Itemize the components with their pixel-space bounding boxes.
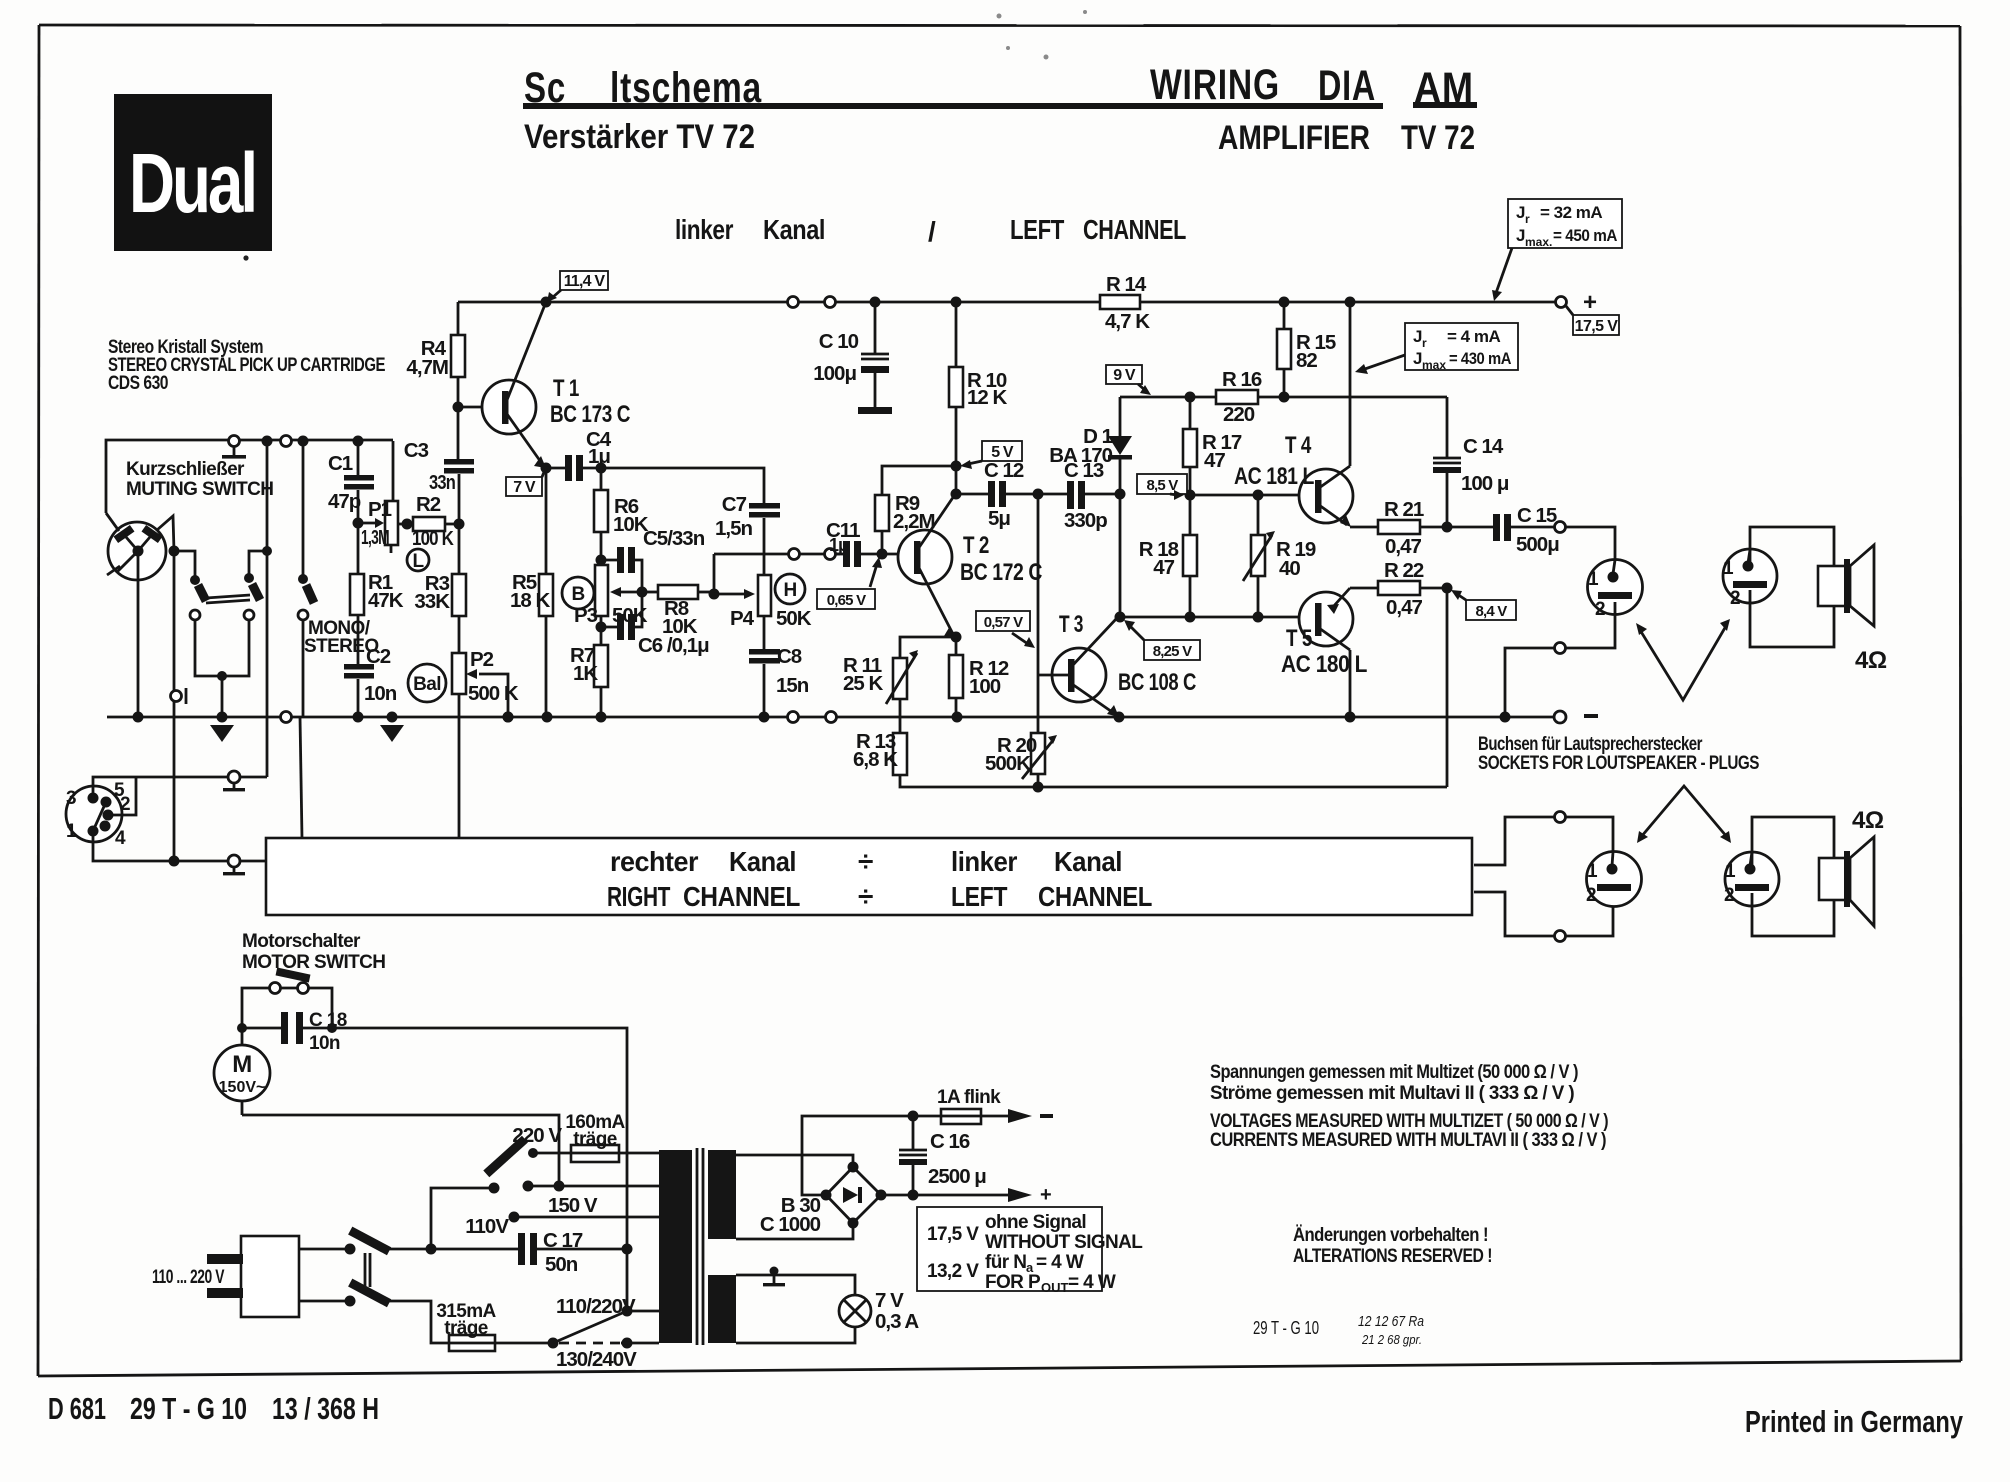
title Schaltschema (partly blotted) — [523, 64, 1477, 112]
contact return wires to ground — [195, 620, 249, 676]
plus terminal — [1556, 289, 1598, 316]
svg-text:330p: 330p — [1064, 509, 1107, 532]
plus rail from bridge — [881, 1194, 1008, 1197]
speaker loop lower — [1752, 817, 1834, 866]
bridge rectifier B30 C1000 — [760, 1162, 887, 1237]
svg-text:träge: träge — [573, 1129, 616, 1150]
svg-text:10K: 10K — [662, 615, 698, 638]
voltage label 17,5V — [1566, 306, 1619, 335]
svg-text:= 32 mA: = 32 mA — [1540, 203, 1602, 222]
node L circle — [407, 549, 429, 572]
svg-text:25 K: 25 K — [843, 672, 883, 695]
transformer — [659, 1148, 736, 1345]
DIN pin3 wire — [93, 777, 228, 798]
svg-text:C2: C2 — [366, 645, 391, 668]
svg-text:8,5 V: 8,5 V — [1146, 477, 1178, 494]
svg-text:rechter: rechter — [610, 846, 699, 877]
svg-text:47K: 47K — [368, 589, 404, 612]
node C6 tap — [596, 622, 607, 633]
notes: alterations — [1293, 1225, 1492, 1267]
svg-text:Ströme gemessen mit Multavi: Ströme gemessen mit Multavi II ( 333 Ω /… — [1210, 1083, 1574, 1104]
svg-text:Kanal: Kanal — [729, 846, 796, 877]
svg-text:P2: P2 — [470, 648, 494, 671]
voltage label 8,4V — [1451, 590, 1516, 620]
svg-text:11,4 V: 11,4 V — [564, 273, 606, 290]
title AMPLIFIER TV 72 — [1218, 119, 1475, 157]
voltage label 9V — [1106, 365, 1151, 395]
svg-text:÷: ÷ — [858, 846, 873, 877]
node D1 junction — [1115, 489, 1126, 500]
chassis on lamp winding — [763, 1267, 785, 1287]
svg-text:J: J — [1413, 349, 1422, 368]
svg-text:ALTERATIONS RESERVED !: ALTERATIONS RESERVED ! — [1293, 1246, 1492, 1267]
voltage label 7V — [506, 472, 544, 496]
svg-text:P3: P3 — [574, 604, 598, 627]
socket L1 — [1588, 560, 1643, 621]
svg-text:ohne Signal: ohne Signal — [985, 1212, 1086, 1233]
svg-text:MUTING SWITCH: MUTING SWITCH — [126, 479, 273, 500]
svg-text:8,25 V: 8,25 V — [1153, 643, 1192, 660]
svg-text:1: 1 — [66, 821, 77, 842]
svg-text:für N: für N — [985, 1252, 1026, 1273]
svg-text:max.: max. — [1525, 235, 1552, 249]
capacitor C6 — [601, 592, 709, 657]
svg-text:110 ... 220 V: 110 ... 220 V — [152, 1267, 225, 1288]
motor feed wires — [242, 1115, 559, 1186]
svg-text:82: 82 — [1296, 349, 1317, 372]
svg-text:5μ: 5μ — [988, 507, 1010, 530]
voltage label 8,25V — [1124, 620, 1200, 660]
svg-text:2: 2 — [120, 794, 130, 815]
svg-text:33n: 33n — [429, 471, 455, 494]
svg-text:29 T - G 10: 29 T - G 10 — [1253, 1318, 1319, 1338]
svg-text:12 K: 12 K — [967, 386, 1007, 409]
potentiometer P4 — [730, 554, 812, 630]
nodes C18 line junctions — [237, 1023, 247, 1033]
wire D1 node down to T3 collector line — [1119, 494, 1122, 617]
svg-text:P4: P4 — [730, 607, 755, 630]
capacitor C15 — [1447, 504, 1559, 556]
switch link dashes — [365, 1253, 370, 1287]
socket R1 — [1586, 852, 1641, 907]
svg-text:= 4 W: = 4 W — [1068, 1272, 1116, 1293]
svg-text:Kanal: Kanal — [763, 214, 825, 245]
heading linker Kanal / LEFT CHANNEL — [675, 214, 1186, 247]
voltage label 11,4V — [547, 271, 608, 302]
svg-text:linker: linker — [675, 214, 733, 245]
svg-text:50K: 50K — [776, 607, 812, 630]
loudspeaker lower — [1819, 807, 1884, 926]
svg-text:Änderungen vorbehalten !: Änderungen vorbehalten ! — [1293, 1225, 1488, 1246]
svg-text:40: 40 — [1279, 557, 1300, 580]
svg-text:träge: träge — [444, 1318, 487, 1339]
svg-text:FOR P: FOR P — [985, 1272, 1041, 1293]
110V tap — [465, 1212, 659, 1239]
svg-text:7 V: 7 V — [875, 1289, 904, 1312]
svg-text:4: 4 — [115, 828, 126, 849]
resistor R4 — [406, 302, 465, 407]
svg-text:C7: C7 — [722, 493, 747, 516]
wire output node down to feedback — [1446, 588, 1449, 787]
svg-text:M: M — [232, 1051, 252, 1078]
node Bal circle — [408, 664, 446, 702]
svg-text:1: 1 — [1723, 558, 1734, 579]
svg-text:T 4: T 4 — [1285, 432, 1312, 459]
wire x268 feed — [266, 441, 269, 551]
svg-text:1,3M: 1,3M — [361, 526, 389, 549]
ground stub on input rail — [222, 436, 246, 459]
node T3 collector — [1115, 612, 1126, 623]
svg-text:47: 47 — [1204, 449, 1225, 472]
signal connector circles mid — [789, 549, 800, 560]
svg-text:13 / 368 H: 13 / 368 H — [272, 1391, 379, 1426]
svg-text:r: r — [1525, 212, 1530, 226]
resistor R1 — [350, 523, 404, 615]
svg-text:Printed in Germany: Printed in Germany — [1745, 1404, 1964, 1439]
node H circle — [775, 574, 805, 604]
wire to first contact — [174, 551, 195, 580]
motor switch loop — [242, 968, 332, 1028]
svg-text:220 V: 220 V — [512, 1124, 562, 1147]
svg-text:Kanal: Kanal — [1054, 846, 1122, 877]
fuse 315mA — [436, 1301, 553, 1351]
socket L1 return — [1566, 602, 1615, 648]
svg-text:LEFT: LEFT — [1010, 214, 1064, 245]
svg-text:6,8 K: 6,8 K — [853, 748, 898, 771]
svg-text:= 430 mA: = 430 mA — [1449, 349, 1511, 368]
svg-text:2: 2 — [1724, 885, 1734, 906]
svg-text:13,2 V: 13,2 V — [927, 1261, 979, 1282]
svg-text:RIGHT: RIGHT — [607, 881, 670, 912]
svg-text:BA 170: BA 170 — [1049, 444, 1112, 467]
resistor R22 — [1350, 559, 1447, 619]
svg-text:0,65 V: 0,65 V — [827, 592, 866, 609]
bottom rail connector circles — [281, 712, 292, 723]
node T2 collector — [951, 489, 962, 500]
capacitor C11 — [826, 519, 916, 567]
svg-text:linker: linker — [951, 846, 1018, 877]
MONO/STEREO switch — [298, 441, 314, 717]
potentiometer P3 — [574, 565, 648, 627]
svg-text:T 3: T 3 — [1059, 611, 1083, 638]
wire to C11 — [836, 553, 843, 556]
8,5V line to T4 base — [1190, 494, 1311, 497]
resistor R8 — [642, 585, 714, 638]
svg-text:Buchsen für Lautsprecherstec: Buchsen für Lautsprecherstecker — [1478, 734, 1703, 755]
svg-text:12 12 67 Ra: 12 12 67 Ra — [1358, 1313, 1424, 1330]
svg-text:29 T - G 10: 29 T - G 10 — [130, 1391, 247, 1426]
svg-text:+: + — [1583, 289, 1597, 316]
output node dots — [1442, 522, 1453, 533]
potentiometer P2 — [452, 616, 519, 838]
speaker plug upper — [1723, 549, 1777, 609]
voltage label 0,65V — [817, 557, 882, 609]
box feed wires — [300, 717, 302, 838]
svg-text:Motorschalter: Motorschalter — [242, 931, 361, 952]
svg-text:17,5 V: 17,5 V — [927, 1224, 979, 1245]
svg-text:OUT: OUT — [1041, 1280, 1069, 1295]
node T1 emitter — [541, 463, 552, 474]
svg-text:0,47: 0,47 — [1386, 596, 1422, 619]
svg-text:7 V: 7 V — [513, 479, 536, 496]
arrows upper V — [1636, 619, 1730, 700]
diode D1 — [1049, 397, 1132, 494]
transistor T3 — [1038, 611, 1196, 717]
node T2 base — [877, 549, 888, 560]
svg-text:= 4 mA: = 4 mA — [1447, 327, 1500, 346]
svg-text:2500 μ: 2500 μ — [928, 1165, 986, 1188]
svg-text:0,57 V: 0,57 V — [984, 614, 1023, 631]
node C5 tap — [596, 555, 607, 566]
lamp secondary wires — [736, 1275, 855, 1295]
loudspeaker upper — [1818, 545, 1887, 674]
secondary upper wires to bridge — [736, 1155, 853, 1167]
resistor R5 — [510, 468, 553, 717]
svg-text:220: 220 — [1223, 403, 1255, 426]
svg-text:C 12: C 12 — [984, 459, 1024, 482]
svg-text:4,7M: 4,7M — [406, 356, 448, 379]
svg-text:4,7 K: 4,7 K — [1105, 310, 1150, 333]
input top rail — [106, 440, 393, 513]
minus rail from bridge — [802, 1116, 941, 1195]
mains switch lower — [299, 1279, 449, 1343]
svg-text:C5/33n: C5/33n — [643, 527, 705, 550]
capacitor C5 — [601, 527, 705, 592]
svg-text:C 1000: C 1000 — [760, 1213, 821, 1236]
svg-text:1: 1 — [1725, 861, 1736, 882]
svg-text:18 K: 18 K — [510, 589, 550, 612]
transistor T5 — [1281, 588, 1367, 717]
svg-text:10n: 10n — [309, 1033, 340, 1054]
capacitor C1 — [328, 441, 374, 523]
resistor R13 — [853, 730, 1447, 787]
svg-text:1: 1 — [1587, 861, 1598, 882]
svg-text:DIA: DIA — [1318, 62, 1376, 110]
wire T3 base vertical — [1037, 494, 1040, 675]
svg-text:max: max — [1422, 358, 1446, 372]
svg-text:R 21: R 21 — [1384, 498, 1424, 521]
110/220V tap — [548, 1249, 660, 1349]
svg-text:C8: C8 — [777, 645, 802, 668]
motor M — [214, 1028, 270, 1115]
resistor R11 (variable) — [843, 637, 956, 733]
box text — [607, 846, 1152, 912]
svg-text:Verstärker TV 72: Verstärker TV 72 — [524, 118, 755, 156]
wire P3 bottom — [600, 616, 603, 627]
svg-text:CDS 630: CDS 630 — [108, 373, 168, 394]
footer D 681 29T-G10 13/368 H — [48, 1391, 379, 1426]
ground symbol at 392 — [380, 725, 404, 742]
channel box — [266, 838, 1472, 915]
svg-text:R 14: R 14 — [1106, 273, 1147, 296]
resistor R20 (variable) — [985, 675, 1057, 793]
node B circle — [562, 577, 594, 609]
resistor R6 — [594, 468, 649, 565]
svg-text:0,47: 0,47 — [1385, 535, 1421, 558]
svg-text:J: J — [1516, 203, 1525, 222]
notes: measurement text — [1210, 1062, 1608, 1151]
transistor T4 — [1234, 302, 1353, 527]
ground symbol at 222 — [210, 725, 234, 742]
svg-text:3: 3 — [66, 788, 76, 809]
current box Jr=4mA — [1355, 323, 1518, 374]
svg-text:WITHOUT SIGNAL: WITHOUT SIGNAL — [985, 1232, 1143, 1253]
Kurzschliesser text — [126, 459, 273, 500]
lower socket feeds from channel box — [1474, 817, 1554, 865]
svg-text:C 15: C 15 — [1517, 504, 1557, 527]
wire ground junction down — [221, 676, 224, 717]
resistor R21 — [1350, 498, 1447, 558]
svg-text:1: 1 — [1588, 569, 1599, 590]
capacitor C12 — [956, 459, 1038, 530]
supply rail top — [458, 301, 1558, 304]
chassis symbol lower — [223, 855, 266, 875]
svg-text:VOLTAGES MEASURED WITH MULT: VOLTAGES MEASURED WITH MULTIZET ( 50 000… — [1210, 1111, 1608, 1132]
wire muting centre to bottom rail — [137, 551, 140, 717]
wire x175 down — [173, 551, 176, 861]
resistor R17 — [1183, 397, 1242, 495]
notes: 29T-G10 + handwritten date — [1253, 1313, 1424, 1347]
node T1 base — [453, 402, 464, 413]
svg-text:/: / — [928, 216, 936, 247]
svg-text:T 2: T 2 — [963, 532, 989, 559]
socket feed upper — [1555, 522, 1566, 533]
svg-text:21 2 68 gpr.: 21 2 68 gpr. — [1361, 1332, 1422, 1347]
nodes R19 top and bottom — [1253, 490, 1264, 501]
svg-text:AM: AM — [1414, 64, 1474, 112]
resistor R10 — [949, 302, 1007, 494]
svg-text:Dual: Dual — [129, 136, 255, 230]
resistor R19 (variable) — [1243, 495, 1316, 617]
svg-text:R2: R2 — [416, 493, 441, 516]
svg-text:500K: 500K — [985, 752, 1031, 775]
svg-text:17,5 V: 17,5 V — [1575, 318, 1619, 335]
P4 wiper arrow — [714, 589, 755, 599]
svg-text:BC 172 C: BC 172 C — [960, 559, 1042, 586]
svg-text:AC 180 L: AC 180 L — [1281, 651, 1367, 678]
rail connector circles — [788, 297, 799, 308]
chassis symbol upper — [223, 771, 267, 791]
svg-text:H: H — [783, 580, 796, 601]
fuse 160mA — [533, 1112, 659, 1162]
svg-text:R 22: R 22 — [1384, 559, 1424, 582]
svg-text:8,4 V: 8,4 V — [1475, 603, 1507, 620]
svg-text:TV 72: TV 72 — [1401, 119, 1475, 157]
svg-text:r: r — [1422, 336, 1427, 350]
DIN socket — [66, 780, 130, 849]
ground dots bottom rail — [133, 712, 144, 723]
svg-text:AMPLIFIER: AMPLIFIER — [1218, 119, 1370, 157]
capacitor C17 — [431, 1229, 627, 1276]
fuse 1A flink — [937, 1087, 1053, 1124]
svg-text:2: 2 — [1586, 885, 1596, 906]
svg-text:100μ: 100μ — [813, 362, 856, 385]
resistor R12 — [949, 637, 1009, 717]
MONO/STEREO label — [304, 618, 379, 657]
svg-text:100 μ: 100 μ — [1461, 472, 1509, 495]
svg-text:50n: 50n — [545, 1253, 578, 1276]
capacitor C18 — [242, 1010, 347, 1054]
muting contact a — [190, 575, 206, 620]
DIN pin1 wire — [93, 831, 228, 861]
svg-text:1A flink: 1A flink — [937, 1087, 1001, 1108]
rail node dots — [541, 297, 552, 308]
resistor R14 — [1100, 273, 1150, 333]
svg-text:150 V: 150 V — [548, 1194, 598, 1217]
svg-text:J: J — [1413, 327, 1422, 346]
svg-text:SOCKETS FOR LOUTSPEAKER - PL: SOCKETS FOR LOUTSPEAKER - PLUGS — [1478, 753, 1759, 774]
svg-text:B: B — [571, 584, 584, 605]
muting contact b — [244, 573, 260, 620]
transistor T2 — [898, 493, 1042, 637]
svg-text:CHANNEL: CHANNEL — [1038, 881, 1152, 912]
resistor R9 — [875, 466, 956, 554]
signal wire C4 to C7 — [601, 468, 764, 504]
svg-text:C 10: C 10 — [819, 330, 859, 353]
lamp 7V 0,3A — [839, 1289, 919, 1333]
svg-text:CHANNEL: CHANNEL — [683, 881, 800, 912]
capacitor C8 — [749, 616, 809, 717]
resistor R16 — [1216, 368, 1262, 426]
svg-text:110/220V: 110/220V — [556, 1295, 636, 1318]
svg-text:MOTOR SWITCH: MOTOR SWITCH — [242, 952, 385, 973]
svg-text:100: 100 — [969, 675, 1001, 698]
muting switch — [106, 513, 174, 580]
svg-text:130/240V: 130/240V — [556, 1348, 637, 1371]
150V tap — [523, 1181, 660, 1218]
svg-text:LEFT: LEFT — [951, 881, 1007, 912]
cartridge note text — [108, 337, 385, 394]
title WIRING DIAGRAM (partly blotted) — [1150, 61, 1474, 112]
capacitor C4 — [546, 428, 612, 481]
svg-text:AC 181 L: AC 181 L — [1234, 463, 1314, 490]
svg-text:L: L — [412, 551, 424, 572]
node 8,5V — [1185, 490, 1196, 501]
svg-text:4Ω: 4Ω — [1855, 647, 1887, 674]
svg-text:4Ω: 4Ω — [1852, 807, 1884, 834]
node wiper junction — [637, 587, 648, 598]
capacitor C13 — [1038, 459, 1120, 532]
svg-text:D 681: D 681 — [48, 1391, 106, 1426]
svg-text:BC 173 C: BC 173 C — [550, 401, 630, 428]
svg-text:C 14: C 14 — [1463, 435, 1504, 458]
Dual logo — [114, 94, 272, 251]
P3 wiper arrow — [610, 587, 642, 597]
8,25V collector line — [1120, 616, 1311, 619]
svg-text:1μ: 1μ — [829, 535, 848, 555]
capacitor C7 — [715, 493, 780, 554]
nodes on 9V rail — [1185, 392, 1196, 403]
Buchsen text — [1478, 734, 1759, 774]
minus dash — [1584, 714, 1598, 718]
node 5V point — [951, 461, 962, 472]
wire base — [458, 406, 505, 409]
svg-text:110V: 110V — [465, 1215, 509, 1238]
resistor R15 — [1277, 302, 1336, 397]
capacitor C16 — [899, 1116, 986, 1195]
svg-text:÷: ÷ — [858, 881, 873, 912]
svg-text:1K: 1K — [573, 662, 598, 685]
130/240V tap — [556, 1338, 659, 1372]
svg-text:J: J — [1516, 226, 1525, 245]
svg-text:BC 108 C: BC 108 C — [1118, 669, 1196, 696]
svg-text:WIRING: WIRING — [1150, 61, 1280, 109]
svg-text:2: 2 — [1730, 588, 1740, 609]
node dots input rail — [262, 436, 273, 447]
test point symbol — [171, 688, 187, 704]
svg-text:CURRENTS MEASURED WITH MULT: CURRENTS MEASURED WITH MULTAVI II ( 333 … — [1210, 1130, 1606, 1151]
svg-text:T 1: T 1 — [553, 375, 579, 402]
